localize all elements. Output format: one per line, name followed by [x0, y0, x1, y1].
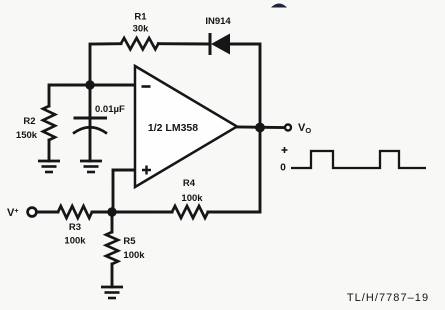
svg-text:1/2 LM358: 1/2 LM358 [148, 122, 198, 134]
svg-text:R4: R4 [183, 178, 196, 189]
svg-text:150k: 150k [16, 130, 38, 141]
svg-text:TL/H/7787–19: TL/H/7787–19 [347, 292, 429, 304]
svg-text:0: 0 [280, 163, 286, 174]
svg-text:R5: R5 [123, 236, 136, 247]
svg-text:IN914: IN914 [205, 16, 231, 27]
svg-text:30k: 30k [133, 23, 150, 34]
svg-text:R2: R2 [23, 116, 35, 127]
svg-text:100k: 100k [123, 250, 145, 261]
svg-text:R3: R3 [69, 222, 81, 233]
svg-text:R1: R1 [134, 11, 147, 22]
svg-text:100k: 100k [181, 193, 203, 204]
svg-text:0.01µF: 0.01µF [95, 104, 125, 115]
svg-text:100k: 100k [64, 236, 86, 247]
